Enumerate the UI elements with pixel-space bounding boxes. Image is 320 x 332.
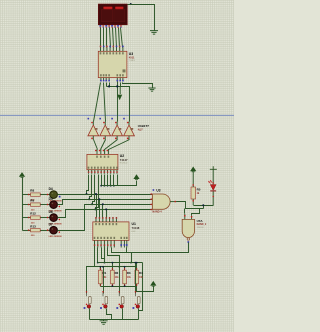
wire rail riser to ground rail <box>139 263 143 311</box>
svg-text:74HC00: 74HC00 <box>197 227 204 229</box>
svg-text:4@7: 4@7 <box>138 128 144 131</box>
svg-text:R3: R3 <box>127 271 131 275</box>
wire LED D7 to rail 3 <box>58 205 93 231</box>
wire node to U7A in1 <box>184 209 186 214</box>
wire stub <box>109 83 111 87</box>
wire stub <box>120 83 122 87</box>
wire U3 pin to buffer 2 <box>104 83 106 122</box>
power terminal left <box>20 173 24 176</box>
buffer U5A <box>88 118 99 140</box>
wires display segments to U3 <box>100 28 102 48</box>
ground terminal (arrow) below U3 <box>119 86 121 94</box>
resistor R2 <box>111 262 120 287</box>
wires buffers to U2 <box>94 140 98 150</box>
svg-text:4511: 4511 <box>129 56 135 60</box>
power terminal near U2 <box>134 175 138 178</box>
IC U3 display driver <box>98 51 127 77</box>
wire U3 pin to ground <box>123 83 153 88</box>
svg-text:R9: R9 <box>30 199 34 203</box>
LED D8 (red) <box>208 169 216 205</box>
svg-text:74148: 74148 <box>132 226 140 230</box>
rail 2 <box>90 199 153 201</box>
junction <box>91 203 93 205</box>
junction <box>88 198 90 200</box>
junction <box>86 193 88 195</box>
svg-text:NAND_2: NAND_2 <box>197 223 207 226</box>
junction node <box>202 204 204 206</box>
svg-text:D4: D4 <box>49 187 53 191</box>
resistor R13 <box>23 224 41 237</box>
wire resistor bottom rail to power <box>101 287 154 292</box>
ground (bottom) <box>100 321 108 325</box>
push button SW3 <box>116 291 124 309</box>
wires U2 pins to +V rail <box>101 175 103 186</box>
IC U2 74147 encoder <box>87 154 118 169</box>
wire +V rail <box>102 181 137 186</box>
wire to button 2 <box>103 267 105 294</box>
taps from rails down to U1 <box>96 195 98 218</box>
U3 top pins <box>100 46 124 55</box>
svg-text:LED-GREEN: LED-GREEN <box>49 236 62 238</box>
staircase wires U2 to rails <box>87 175 89 195</box>
push button SW1 <box>84 291 92 309</box>
wires U1 to pull network <box>94 248 96 267</box>
wire U3 pin to buffer 1 <box>94 83 101 122</box>
node display common <box>130 3 132 5</box>
junction <box>108 85 110 87</box>
wire display common to ground <box>128 5 155 31</box>
svg-text:R5: R5 <box>197 187 201 191</box>
button bottom wires <box>89 309 91 320</box>
wire U3 pin to buffer 3 <box>117 82 119 122</box>
svg-text:D7: D7 <box>49 223 53 227</box>
resistor R8 <box>23 189 41 202</box>
wire LED D5 to rail 2 <box>58 200 90 205</box>
svg-text:U3: U3 <box>156 189 160 193</box>
resistor R5 <box>191 172 201 206</box>
wire U7A out to U1 <box>127 243 189 253</box>
rail 1 <box>87 194 153 196</box>
wire to button 4 <box>135 263 137 294</box>
LED D5 <box>41 197 62 213</box>
7-segment dual display DISP1 <box>98 4 127 28</box>
buffer U5B <box>99 118 110 140</box>
buffer U5C <box>111 118 122 140</box>
power bar terminal above LED <box>210 166 217 169</box>
svg-text:U3: U3 <box>129 52 133 56</box>
wire R5-LED node <box>194 205 214 207</box>
svg-text:R12: R12 <box>30 212 36 216</box>
sheet border line <box>0 114 234 116</box>
gate U7A NAND_2 <box>182 214 194 243</box>
wire node to U7A in2 <box>192 209 200 216</box>
wire left power bus <box>22 178 24 231</box>
push button SW2 <box>100 291 108 309</box>
power terminal bottom right <box>151 282 155 285</box>
resistor R1 <box>99 266 108 287</box>
wire button ground rail <box>90 319 139 321</box>
rail 4 <box>96 209 153 211</box>
svg-text:R4: R4 <box>139 271 143 275</box>
wire stub <box>106 83 108 87</box>
svg-text:74147: 74147 <box>120 158 128 162</box>
ground (top right) <box>150 31 158 34</box>
wire LED D4 to rail 1 <box>58 194 87 196</box>
svg-text:7-SEG: 7-SEG <box>129 60 135 62</box>
wire to button 3 <box>119 267 121 294</box>
rail to resistors upper <box>98 262 143 264</box>
resistor R3 <box>123 266 132 287</box>
wire U3 pin to buffer 4 <box>107 87 130 122</box>
wire gate out to node <box>177 202 204 209</box>
rail 3 <box>93 204 153 206</box>
svg-text:R13: R13 <box>30 224 36 228</box>
junction <box>94 208 96 210</box>
buffer U5D <box>123 118 134 140</box>
svg-text:R2: R2 <box>115 271 119 275</box>
svg-text:D5: D5 <box>49 197 53 201</box>
resistor R12 <box>23 212 41 225</box>
rail to resistors lower <box>87 266 137 268</box>
LED D4 <box>41 187 62 203</box>
svg-text:R8: R8 <box>30 189 34 193</box>
IC U1 counter <box>93 222 129 241</box>
gate U3 NAND_4 <box>152 194 176 209</box>
svg-text:D6: D6 <box>49 210 53 214</box>
resistor R9 <box>23 199 41 212</box>
svg-text:HC/BCD: HC/BCD <box>120 163 128 165</box>
svg-text:NAND 4: NAND 4 <box>152 211 162 214</box>
junction <box>116 85 118 87</box>
LED D6 <box>41 210 62 226</box>
wire to button 1 <box>87 267 95 294</box>
LED D7 <box>41 223 62 239</box>
svg-text:ENC: ENC <box>132 231 137 233</box>
svg-text:U1B1T7: U1B1T7 <box>138 124 150 128</box>
ground (below U3 right) <box>148 88 155 91</box>
power terminal above R5 <box>191 167 195 170</box>
push button SW4 <box>133 291 141 309</box>
U3 bottom pins <box>100 69 125 81</box>
resistor R4 <box>135 262 144 287</box>
svg-text:U7A: U7A <box>197 219 204 223</box>
wire LED D6 to rail 4 <box>58 210 96 218</box>
